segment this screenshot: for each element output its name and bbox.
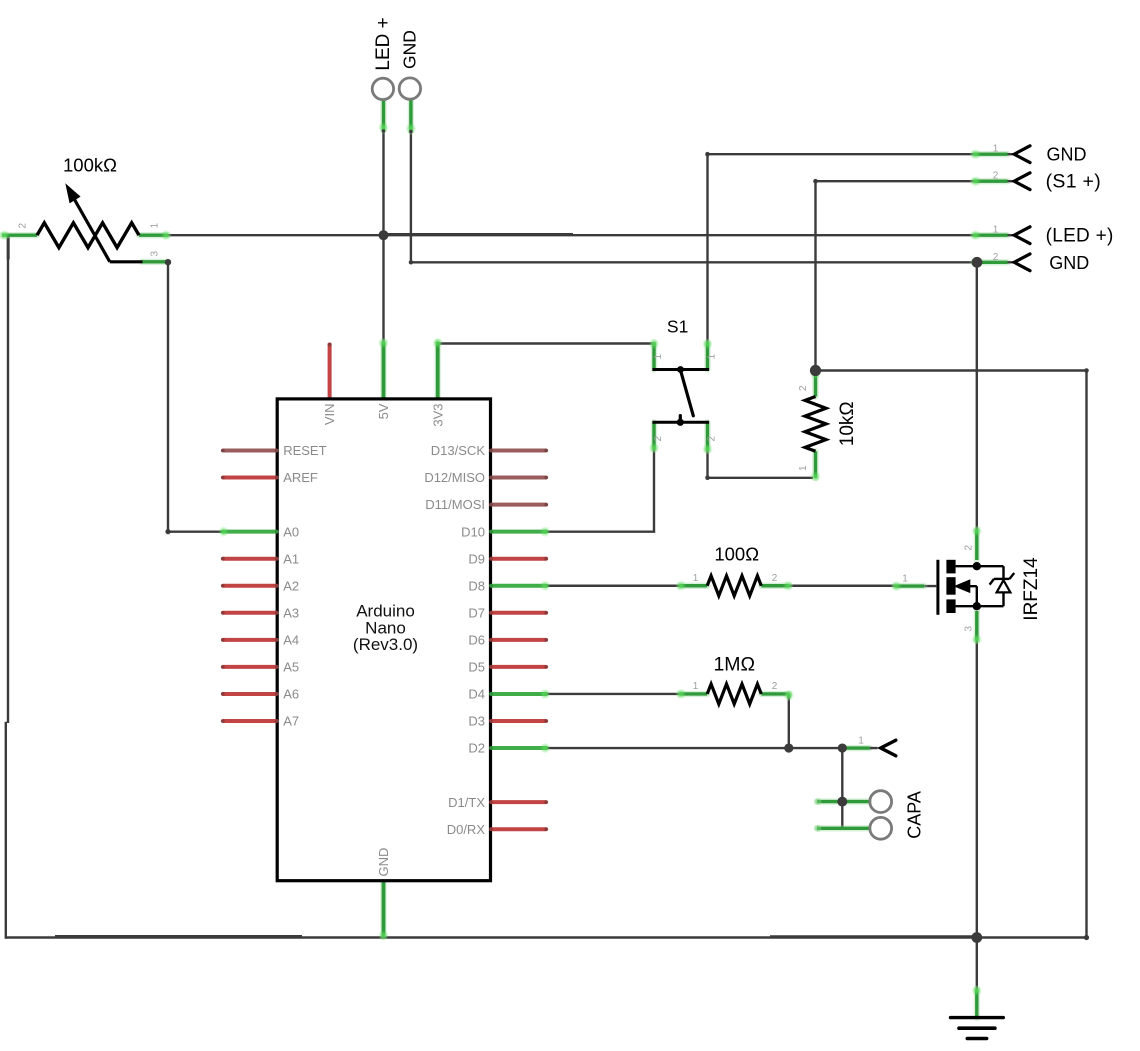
svg-text:1: 1 [693,681,699,692]
svg-text:GND: GND [1047,145,1087,165]
svg-text:GND: GND [400,30,420,69]
svg-text:1: 1 [653,354,664,360]
svg-text:100kΩ: 100kΩ [63,155,117,176]
svg-text:S1: S1 [667,317,688,337]
svg-text:D4: D4 [468,687,485,702]
svg-text:1: 1 [902,574,908,585]
svg-text:2: 2 [964,545,975,551]
svg-text:3V3: 3V3 [430,404,445,427]
svg-text:IRFZ14: IRFZ14 [1021,557,1042,621]
svg-text:D1/TX: D1/TX [448,795,485,810]
svg-text:LED +: LED + [373,17,394,70]
svg-text:D5: D5 [468,660,485,675]
svg-text:D11/MOSI: D11/MOSI [425,497,485,512]
svg-text:2: 2 [18,223,29,229]
svg-text:1: 1 [707,354,718,360]
svg-text:RESET: RESET [283,443,326,458]
svg-text:1: 1 [150,223,161,229]
svg-text:A5: A5 [283,660,299,675]
svg-text:(Rev3.0): (Rev3.0) [353,635,418,654]
svg-text:100Ω: 100Ω [714,544,759,565]
svg-text:1: 1 [993,144,999,155]
svg-text:2: 2 [653,436,664,442]
svg-text:1MΩ: 1MΩ [713,654,755,676]
svg-text:D10: D10 [461,524,485,539]
svg-text:3: 3 [964,626,975,632]
svg-text:D9: D9 [468,551,485,566]
svg-text:AREF: AREF [283,470,318,485]
svg-text:2: 2 [993,171,999,182]
svg-text:2: 2 [772,681,778,692]
svg-text:1: 1 [798,465,809,471]
svg-text:(LED +): (LED +) [1046,226,1114,247]
svg-text:A2: A2 [283,578,299,593]
svg-text:2: 2 [993,252,999,263]
svg-text:D8: D8 [468,578,485,593]
svg-text:D0/RX: D0/RX [447,822,486,837]
svg-text:2: 2 [798,385,809,391]
svg-text:3: 3 [150,251,161,257]
svg-text:1: 1 [693,573,699,584]
svg-text:D13/SCK: D13/SCK [431,443,486,458]
svg-text:VIN: VIN [322,404,337,426]
svg-text:D12/MISO: D12/MISO [424,470,485,485]
svg-text:2: 2 [707,436,718,442]
svg-text:(S1 +): (S1 +) [1046,171,1101,193]
svg-text:A3: A3 [283,605,299,620]
svg-text:A1: A1 [283,551,299,566]
svg-text:10kΩ: 10kΩ [837,401,858,446]
svg-text:A0: A0 [283,524,299,539]
svg-text:D6: D6 [468,632,485,647]
svg-text:D2: D2 [468,741,485,756]
svg-text:2: 2 [772,573,778,584]
svg-text:A6: A6 [283,687,299,702]
svg-text:GND: GND [376,848,391,877]
svg-text:5V: 5V [376,403,391,419]
svg-text:1: 1 [993,225,999,236]
svg-text:D7: D7 [468,605,485,620]
svg-text:GND: GND [1049,253,1089,273]
svg-text:A7: A7 [283,714,299,729]
svg-text:1: 1 [858,736,864,747]
svg-text:CAPA: CAPA [904,791,924,839]
svg-text:D3: D3 [468,714,485,729]
svg-text:A4: A4 [283,632,299,647]
